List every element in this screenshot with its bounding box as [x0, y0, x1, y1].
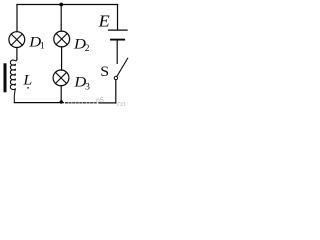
switch S pivot circle: [114, 76, 117, 79]
wire middle between D2 and D3: [61, 47, 63, 70]
wire bottom left solid: [14, 102, 63, 104]
svg-text:co: co: [117, 100, 126, 107]
svg-text:E: E: [98, 12, 111, 30]
wire right lower to switch: [115, 80, 117, 103]
wire left branch down: [16, 5, 18, 32]
svg-text:2: 2: [85, 44, 90, 54]
stray scan mark: [27, 87, 29, 89]
battery negative short plate: [111, 39, 124, 41]
svg-text:1: 1: [40, 41, 45, 51]
switch S blade: [117, 58, 128, 76]
node junction bottom: [60, 100, 63, 103]
switch top terminal wire: [116, 40, 118, 63]
inductor iron core: [4, 63, 7, 92]
wire bottom dashed section: [66, 102, 98, 104]
label D1: [28, 34, 45, 51]
wire middle branch lower: [60, 86, 62, 103]
svg-text:p5: p5: [96, 98, 104, 105]
node junction top: [59, 3, 63, 7]
label D2: [73, 36, 90, 54]
svg-text:3: 3: [85, 82, 90, 92]
label D3: [73, 74, 90, 92]
wire middle branch upper: [60, 5, 62, 32]
wire battery to top bus: [117, 5, 119, 30]
lamp D1: [9, 32, 25, 48]
wire bottom right solid: [99, 102, 116, 104]
wire D1 to inductor: [16, 48, 18, 60]
wire top bus: [17, 4, 118, 6]
lamp D2: [54, 31, 70, 47]
svg-text:S: S: [100, 64, 109, 80]
inductor L coil: [10, 59, 17, 102]
lamp D3: [53, 70, 69, 86]
svg-text:L: L: [22, 72, 32, 88]
battery positive long plate: [109, 29, 128, 31]
